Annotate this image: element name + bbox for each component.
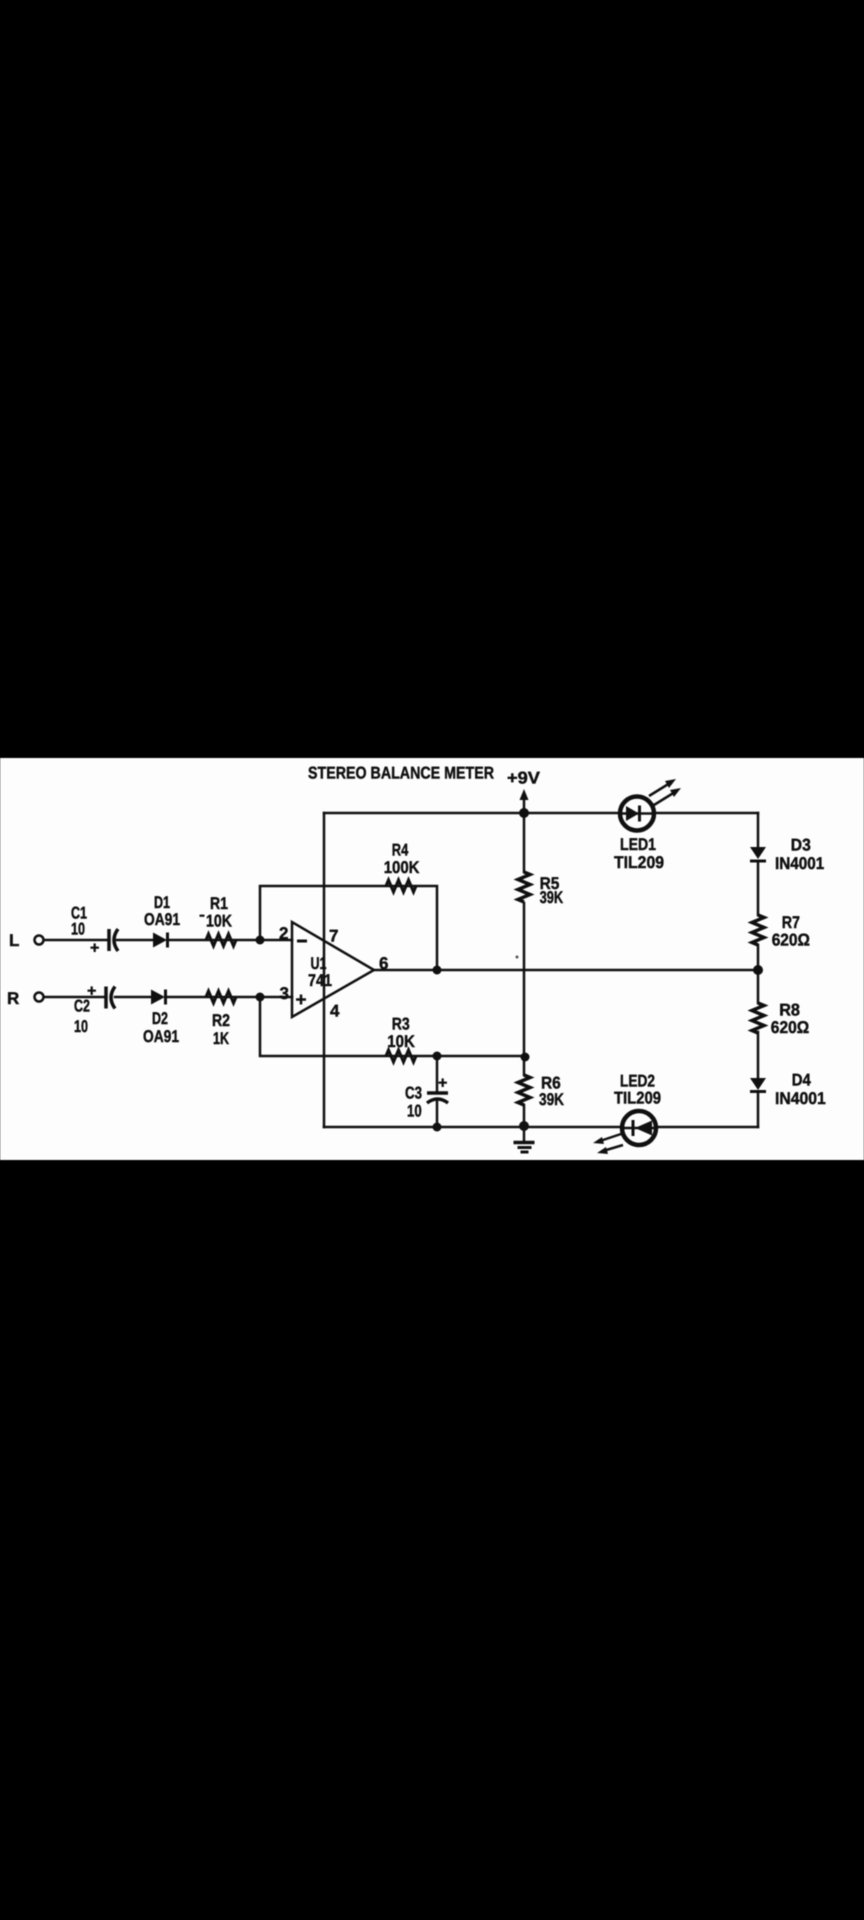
svg-text:+: + [87, 983, 96, 1000]
svg-text:IN4001: IN4001 [775, 854, 824, 873]
power +9V [507, 769, 541, 801]
resistor R3 [386, 1015, 416, 1063]
svg-text:2: 2 [279, 924, 288, 943]
node pin3 junction [256, 993, 265, 1002]
svg-text:+: + [90, 940, 99, 957]
svg-text:TIL209: TIL209 [614, 1089, 661, 1108]
svg-text:39K: 39K [540, 888, 564, 907]
svg-text:+: + [438, 1075, 447, 1092]
node output/right rail junction [753, 965, 763, 975]
svg-text:3: 3 [280, 984, 289, 1003]
wire bottom rail [324, 1126, 758, 1129]
wire +9V stem [523, 798, 526, 813]
svg-text:STEREO BALANCE METER: STEREO BALANCE METER [308, 764, 494, 783]
svg-text:R1: R1 [210, 894, 228, 913]
svg-text:R4: R4 [392, 841, 409, 860]
svg-text:+9V: +9V [507, 769, 541, 788]
node R3 to divider junction [521, 1053, 530, 1062]
svg-text:10: 10 [74, 1017, 88, 1036]
diode D2 [143, 990, 179, 1047]
resistor R7 [752, 913, 810, 950]
node feedback/output junction [433, 966, 442, 975]
svg-text:C3: C3 [405, 1084, 422, 1103]
svg-text:39K: 39K [539, 1090, 565, 1109]
svg-text:R8: R8 [779, 1001, 800, 1020]
capacitor C2 [74, 983, 115, 1036]
svg-text:4: 4 [330, 1002, 340, 1021]
wire right rail [757, 813, 760, 1127]
wire top rail [324, 812, 758, 815]
svg-text:10K: 10K [206, 912, 233, 931]
wire pin3 to R3 line [260, 997, 525, 1056]
svg-text:R7: R7 [782, 913, 800, 932]
svg-text:1K: 1K [213, 1029, 230, 1048]
diode D1 [144, 893, 180, 948]
capacitor C1 [71, 904, 118, 958]
resistor R2 [206, 991, 236, 1048]
svg-text:10: 10 [407, 1102, 422, 1121]
svg-text:L: L [9, 931, 19, 950]
terminal L [9, 931, 44, 950]
wire L input line [43, 939, 292, 942]
resistor R4 [384, 841, 420, 893]
svg-text:7: 7 [329, 927, 338, 946]
resistor R5 [518, 872, 564, 907]
svg-text:IN4001: IN4001 [775, 1089, 826, 1108]
svg-text:R3: R3 [392, 1015, 410, 1034]
schematic white panel [0, 758, 864, 1160]
svg-text:R: R [7, 989, 19, 1008]
wire feedback loop to R4 [260, 886, 437, 970]
wire R5 R6 divider rail [523, 813, 526, 1126]
svg-text:D3: D3 [791, 836, 811, 855]
ground [514, 1126, 535, 1152]
svg-text:D4: D4 [792, 1071, 812, 1090]
terminal R [7, 989, 44, 1008]
op-amp U1 [292, 922, 374, 1017]
diode D4 [750, 1071, 826, 1109]
svg-text:OA91: OA91 [143, 1027, 179, 1046]
LED2 TIL209 [593, 1072, 661, 1155]
wire C3 branch [436, 1056, 439, 1127]
svg-text:6: 6 [379, 954, 388, 973]
diode D3 [750, 836, 824, 874]
wire output line [374, 969, 758, 972]
node +9V junction [519, 808, 529, 818]
svg-text:620Ω: 620Ω [772, 931, 810, 950]
svg-text:620Ω: 620Ω [771, 1018, 809, 1037]
svg-text:R2: R2 [212, 1011, 230, 1030]
node C3/bottom rail junction [433, 1123, 442, 1132]
wire R input line [43, 996, 292, 999]
resistor R1 [200, 894, 237, 946]
node ground junction [519, 1121, 529, 1131]
svg-text:741: 741 [308, 971, 332, 990]
svg-text:TIL209: TIL209 [614, 853, 664, 872]
resistor R8 [752, 1001, 809, 1038]
svg-text:10K: 10K [387, 1032, 415, 1051]
resistor R6 [518, 1074, 565, 1110]
LED1 TIL209 [614, 779, 681, 872]
node pin2 junction [256, 936, 265, 945]
svg-text:D2: D2 [152, 1009, 168, 1028]
wire vertical pin7/pin4 line [323, 813, 326, 1127]
capacitor C3 [405, 1075, 448, 1121]
svg-text:OA91: OA91 [144, 910, 180, 929]
svg-text:LED1: LED1 [620, 835, 656, 854]
svg-text:10: 10 [71, 920, 85, 939]
stray scan speck [516, 956, 519, 959]
node R3/C3 junction [433, 1052, 442, 1061]
svg-text:100K: 100K [384, 858, 420, 877]
